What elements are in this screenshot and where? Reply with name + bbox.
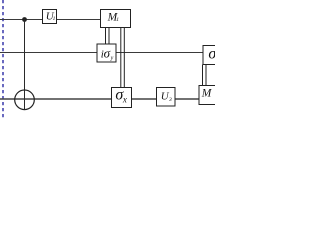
- gate sigma-x box: [112, 88, 132, 108]
- svg-text:1: 1: [116, 17, 119, 23]
- svg-text:x: x: [122, 95, 127, 105]
- measurement M2 box (clipped at right edge): [199, 86, 221, 105]
- wire middle qubit: [0, 52, 97, 54]
- CNOT target circle: [15, 90, 35, 110]
- wire top qubit: [0, 19, 43, 21]
- measurement M1 box: [101, 10, 131, 28]
- wire top qubit segment 2: [57, 19, 101, 21]
- classical double line M1 to sigma-x (right pair): [120, 28, 122, 88]
- dashed cut line (blue): [2, 0, 4, 120]
- CNOT control dot: [22, 17, 27, 22]
- gate U3 box: [157, 88, 176, 107]
- wire bottom qubit segment 2: [132, 98, 157, 100]
- svg-text:1: 1: [53, 16, 56, 22]
- wire bottom qubit: [0, 98, 112, 100]
- CNOT vertical line: [24, 20, 26, 110]
- svg-text:y: y: [110, 56, 114, 62]
- classical double line sigma-z to M2: [202, 65, 204, 86]
- wire bottom qubit segment 3: [175, 98, 199, 100]
- svg-text:3: 3: [168, 97, 172, 103]
- wire middle qubit segment 2: [116, 52, 203, 54]
- gate i-sigma-y box: [97, 44, 116, 62]
- gate U1 box: [43, 10, 57, 24]
- svg-text:M: M: [201, 88, 213, 100]
- svg-text:σ: σ: [104, 46, 111, 61]
- classical double line M1 to i-sigma-y (left pair): [105, 28, 107, 45]
- gate sigma-z box (clipped at right edge): [203, 46, 225, 65]
- svg-text:σ: σ: [208, 45, 215, 62]
